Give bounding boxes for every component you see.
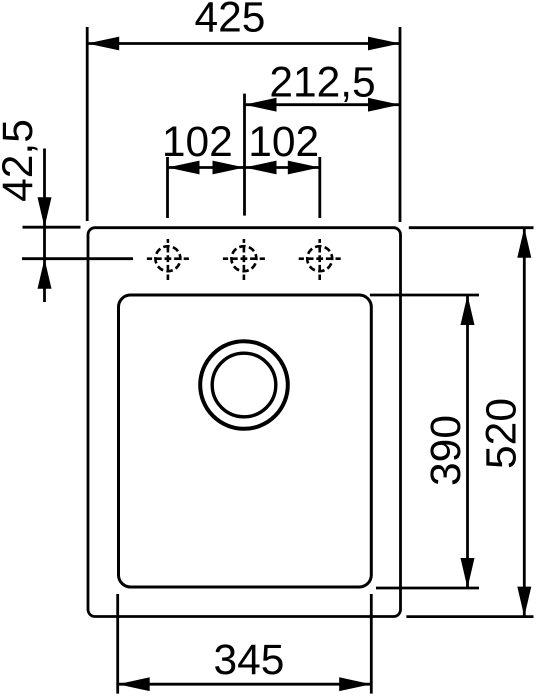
dim 42.5 arrow up — [38, 259, 52, 289]
dim 102 left arrow left — [168, 161, 200, 175]
dim 212.5 arrow left — [245, 98, 277, 112]
dim 102 right line — [245, 166, 320, 169]
dim 425 extension line left — [86, 27, 89, 221]
svg-text:345: 345 — [214, 637, 285, 684]
dim 390 line — [466, 295, 469, 588]
sink bowl inner outline — [119, 295, 372, 587]
dim 102 right arrow right — [288, 161, 320, 175]
dim 520 extension line bottom — [406, 615, 533, 618]
dim 520 arrow down — [517, 587, 531, 617]
dim 42.5 vertical line — [43, 149, 46, 303]
svg-text:425: 425 — [195, 0, 266, 42]
dim 390 extension line top — [370, 294, 479, 297]
dim 425 arrow right — [368, 37, 400, 51]
faucet hole 1 — [147, 239, 189, 280]
dim 102 left extension line — [166, 157, 169, 218]
dim 102 right extension line — [318, 157, 321, 218]
faucet hole 3 — [299, 239, 341, 280]
dim 345 extension line left — [116, 594, 119, 694]
svg-text:390: 390 — [423, 415, 470, 486]
drain outer circle — [200, 341, 288, 429]
dim 390 arrow up — [461, 295, 475, 325]
dim 212.5 line — [245, 103, 401, 106]
dim 425 line — [87, 42, 400, 45]
dim 345 arrow right — [339, 677, 371, 691]
svg-text:42,5: 42,5 — [0, 119, 42, 202]
drain inner circle — [212, 353, 276, 417]
dim 212.5 center extension line — [243, 94, 246, 216]
dim 520 line — [523, 228, 526, 617]
dim 102 right arrow left — [245, 161, 277, 175]
dim 345 extension line right — [370, 594, 373, 694]
svg-text:102: 102 — [162, 119, 233, 166]
dim 42.5 arrow down — [38, 197, 52, 227]
dim 102 left line — [168, 166, 245, 169]
svg-text:520: 520 — [479, 398, 526, 469]
dim 520 extension line top — [409, 226, 534, 229]
sink outer outline — [88, 228, 401, 617]
svg-text:212,5: 212,5 — [269, 60, 375, 107]
dim 425/212.5 extension line right — [399, 27, 402, 222]
dim 345 arrow left — [118, 677, 150, 691]
dim 102 left arrow right — [213, 161, 245, 175]
dim 42.5 tick bottom / hole centerline extension — [22, 257, 133, 260]
dim 42.5 tick top — [23, 226, 81, 229]
faucet hole 2 — [223, 239, 265, 280]
dim 425 arrow left — [87, 37, 119, 51]
svg-text:102: 102 — [248, 119, 319, 166]
dim 212.5 arrow right — [368, 98, 400, 112]
dim 520 arrow up — [517, 228, 531, 258]
dim 345 line — [118, 683, 372, 686]
dim 390 arrow down — [461, 558, 475, 588]
dim 390 extension line bottom — [376, 587, 479, 590]
